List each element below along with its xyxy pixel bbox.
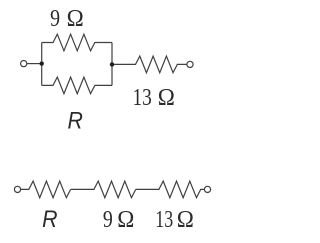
svg-text:R: R [42, 205, 57, 233]
label 9 ohm (bottom) [103, 205, 134, 233]
svg-text:Ω: Ω [117, 207, 134, 234]
resistor R (bottom circuit) with lead [21, 181, 71, 198]
node A junction dot [40, 61, 44, 65]
terminal right (bottom circuit) [204, 186, 210, 192]
label 13 ohm (top) [133, 83, 175, 111]
terminal right (top circuit) [187, 61, 193, 67]
svg-text:Ω: Ω [158, 84, 175, 111]
svg-text:9: 9 [50, 4, 60, 31]
svg-text:Ω: Ω [67, 5, 84, 32]
svg-text:Ω: Ω [177, 207, 194, 234]
svg-text:13: 13 [155, 205, 173, 232]
label 9 ohm (top) [50, 4, 84, 32]
resistor 9 ohm (bottom circuit) with lead [71, 181, 136, 198]
wire from left terminal to node A [27, 63, 42, 65]
svg-text:13: 13 [133, 83, 152, 111]
terminal left (top circuit) [21, 61, 27, 67]
wire left vertical of parallel pair [41, 43, 43, 86]
node B junction dot [110, 62, 114, 66]
resistor 13 ohm (bottom circuit) with leads [136, 181, 205, 198]
wire right vertical of parallel pair [111, 43, 113, 86]
label 13 ohm (bottom) [155, 205, 194, 233]
svg-text:9: 9 [103, 205, 113, 232]
resistor 9 ohm (top branch) [42, 34, 112, 51]
terminal left (bottom circuit) [14, 186, 20, 192]
resistor R (bottom branch) [42, 77, 112, 94]
resistor 13 ohm with leads [112, 56, 187, 73]
svg-text:R: R [68, 106, 83, 134]
